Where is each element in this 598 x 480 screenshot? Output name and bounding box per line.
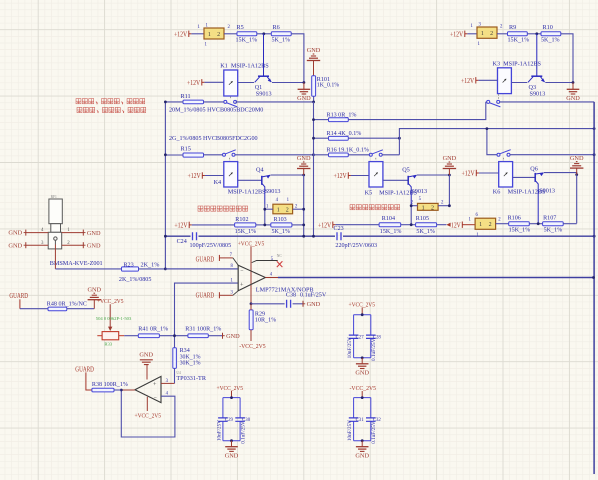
- svg-text:GND: GND: [307, 47, 321, 54]
- transistor Q4: [261, 176, 263, 185]
- ground port GND (C38): [302, 301, 304, 307]
- wires cap bank rails C: [354, 397, 371, 399]
- svg-text:R107: R107: [543, 215, 556, 221]
- wire +12V to K1 coil: [204, 81, 223, 83]
- power port +VCC_2V5 (U2 bottom supply): [146, 397, 148, 411]
- wire K5 coil to Q5 base: [383, 179, 408, 181]
- resistor R101: [312, 76, 316, 96]
- svg-text:15K_1%: 15K_1%: [380, 229, 402, 235]
- svg-text:1K_0.1%: 1K_0.1%: [317, 83, 340, 89]
- svg-text:+VCC_2V5: +VCC_2V5: [97, 298, 124, 305]
- svg-text:Q4: Q4: [256, 166, 264, 173]
- wire header to R106: [496, 223, 509, 225]
- svg-text:5K_1%: 5K_1%: [544, 228, 563, 234]
- wire supply node to R29: [250, 304, 252, 310]
- svg-text:+12V: +12V: [450, 30, 464, 38]
- svg-text:2: 2: [490, 31, 493, 37]
- svg-text:K3 MSIP-1A12BS: K3 MSIP-1A12BS: [493, 61, 542, 68]
- wire K3 coil to Q3 collector: [511, 82, 527, 84]
- ground (bank C27/C28): [361, 358, 363, 364]
- op-amp U1 triangle: [238, 265, 265, 291]
- U1 output pin 4: [265, 277, 278, 279]
- wire R101 to R11 row: [313, 96, 315, 102]
- wire header pin2 to GND riser: [293, 208, 304, 210]
- wire R10 right, down to emitter node: [561, 34, 573, 83]
- wire K6 contact to right edge: [510, 154, 594, 156]
- wire feedback bus: [165, 235, 190, 237]
- ground (K5 block): [448, 169, 450, 176]
- svg-text:10R_1%: 10R_1%: [255, 318, 276, 324]
- svg-text:S9013: S9013: [411, 188, 427, 195]
- svg-text:K5: K5: [365, 190, 373, 197]
- junction R5/R6/Q1 base: [262, 32, 265, 35]
- ground port GND (R31): [222, 333, 224, 339]
- svg-text:GND: GND: [88, 286, 102, 293]
- wire R106 to R107: [529, 223, 542, 225]
- wire R104 to R105: [401, 224, 416, 226]
- svg-text:GUARD: GUARD: [196, 291, 215, 299]
- svg-text:GND: GND: [355, 452, 369, 459]
- svg-text:GND: GND: [443, 155, 457, 162]
- svg-text:+VCC_2V5: +VCC_2V5: [135, 412, 162, 419]
- junction output bus / right edge: [592, 276, 595, 279]
- ground (bank C31/C32): [361, 441, 363, 447]
- svg-text:+12V: +12V: [461, 77, 475, 85]
- svg-text:C24: C24: [177, 239, 187, 245]
- svg-text:MSIP-1A12BS: MSIP-1A12BS: [228, 188, 266, 195]
- svg-text:R104: R104: [382, 216, 395, 222]
- wire BNC center pin down to input row: [54, 245, 56, 269]
- wire input to U1 pin 8: [165, 268, 238, 270]
- relay contact K3: [487, 100, 490, 103]
- wire R16 to K5 contact: [348, 154, 369, 156]
- svg-text:Q5: Q5: [402, 166, 410, 173]
- wire U1 pin 1 to R34 branch: [175, 283, 239, 348]
- svg-text:R11: R11: [181, 93, 191, 100]
- svg-text:12V: 12V: [451, 221, 461, 229]
- svg-text:10nF/25V: 10nF/25V: [347, 420, 353, 441]
- svg-text:GND: GND: [8, 242, 22, 249]
- svg-text:GND: GND: [225, 452, 239, 459]
- wire Q4 emitter to GND node: [271, 174, 304, 176]
- capacitor C31: [353, 398, 355, 418]
- svg-text:GND: GND: [566, 95, 580, 102]
- svg-text:R15: R15: [181, 145, 191, 152]
- wire Q5 collector riser to header pin1: [410, 204, 412, 225]
- svg-text:5K_1%: 5K_1%: [272, 38, 291, 44]
- svg-text:+12V: +12V: [462, 170, 476, 178]
- svg-text:R6: R6: [273, 24, 280, 31]
- wire Q1 base from divider: [263, 34, 265, 76]
- wire K4 GND riser down to bus: [303, 175, 305, 236]
- svg-text:1: 1: [422, 205, 425, 211]
- svg-text:2: 2: [217, 32, 220, 38]
- wire +VCC to R33 (red, with arrow): [109, 304, 111, 327]
- wire Q6 emitter to GND node: [544, 173, 577, 175]
- svg-text:R33: R33: [104, 341, 112, 346]
- svg-text:5K_1%: 5K_1%: [416, 229, 435, 235]
- svg-text:+: +: [240, 282, 244, 289]
- svg-text:5K_1%: 5K_1%: [541, 38, 560, 44]
- svg-text:R5: R5: [237, 24, 244, 31]
- wire U2 output (apex) to R38 node: [121, 389, 135, 391]
- wire output bus: [278, 277, 594, 279]
- wire Q4 collector riser to header pin1: [264, 204, 266, 225]
- svg-text:K4: K4: [214, 179, 222, 186]
- wire riser to R16: [314, 154, 329, 156]
- wire R13 to K3 contact riser: [348, 102, 486, 120]
- wire supply node to C38: [251, 303, 285, 305]
- wire Q5 emitter to GND node: [417, 174, 450, 176]
- ground (K4 block): [303, 169, 305, 176]
- wire R105 to +12V arrow port: [437, 224, 447, 226]
- svg-text:+VCC_2V5: +VCC_2V5: [238, 240, 265, 247]
- svg-text:0.1uF/25V: 0.1uF/25V: [371, 338, 377, 361]
- svg-text:15K_1%: 15K_1%: [235, 229, 257, 235]
- ground (R48): [93, 300, 95, 309]
- svg-text:−: −: [240, 268, 243, 274]
- svg-text:−: −: [154, 395, 157, 401]
- wire bus to R15: [165, 154, 183, 156]
- relay contact K6: [497, 153, 500, 156]
- svg-text:0.1uF/25V: 0.1uF/25V: [240, 421, 246, 444]
- svg-text:+: +: [153, 381, 157, 388]
- wire C38 to GND port: [293, 303, 303, 305]
- wire Q1 emitter to ground node: [272, 82, 304, 84]
- junction right edge / bus: [593, 235, 596, 238]
- svg-text:1: 1: [277, 207, 280, 213]
- wire guard to U1 pin 7: [219, 257, 233, 259]
- svg-text:2G_1%/0805 HVCB0805FDC2G00: 2G_1%/0805 HVCB0805FDC2G00: [169, 136, 258, 142]
- transistor Q6: [534, 173, 536, 182]
- wire R41 to R31: [159, 335, 188, 337]
- capacitor C27: [353, 315, 355, 335]
- wire R29 to -VCC_2V5: [250, 330, 252, 341]
- svg-text:R9: R9: [509, 24, 516, 31]
- svg-text:1: 1: [481, 31, 484, 37]
- wire +12V to R102: [192, 224, 235, 226]
- svg-text:-VCC_2V5: -VCC_2V5: [350, 385, 377, 392]
- svg-text:R41 0R_1%: R41 0R_1%: [138, 327, 168, 333]
- wire long line branch to K6 contact: [487, 129, 497, 155]
- svg-text:30K_1%: 30K_1%: [180, 354, 201, 360]
- wire U2 pin 3 (top right): [161, 382, 175, 384]
- wire R31 to GND port: [208, 335, 222, 337]
- svg-text:C27: C27: [356, 335, 365, 340]
- wire header to R9: [497, 33, 508, 35]
- resistor R9: [508, 32, 528, 36]
- wire R102 to R103: [256, 224, 271, 226]
- wire header to R5: [224, 33, 237, 35]
- transistor Q5: [407, 176, 409, 185]
- svg-text:U4: U4: [176, 371, 181, 375]
- svg-text:GND: GND: [297, 155, 311, 162]
- svg-text:GND: GND: [8, 230, 22, 237]
- svg-text:+12V: +12V: [187, 79, 201, 87]
- svg-text:2K_1%: 2K_1%: [141, 261, 160, 268]
- wire Q3 emitter to ground node: [545, 82, 573, 84]
- wire +12V to K5 coil: [351, 175, 369, 177]
- junction R101 / R11 row / right riser: [312, 101, 315, 104]
- svg-text:+12V: +12V: [318, 221, 332, 229]
- junction R9/R10/Q3 base: [535, 32, 538, 35]
- svg-text:K6: K6: [493, 188, 501, 195]
- wire header pin2 to K5 GND riser: [438, 205, 449, 207]
- annotation: Chinese 'power-on default max range' (K4): [198, 206, 203, 211]
- junction right edge / long line: [593, 127, 596, 130]
- ground port GND (BNC right top): [82, 230, 84, 236]
- ground (bank C29/C30): [231, 441, 233, 447]
- svg-text:TP0331-TR: TP0331-TR: [176, 375, 206, 382]
- junction right edge / K6 contact row: [593, 153, 596, 156]
- junction right riser / bus: [312, 235, 315, 238]
- junction left bus / feedback bus: [164, 235, 167, 238]
- wires cap bank rails B: [223, 397, 240, 399]
- wire -VCC to bank C31/C32: [361, 391, 363, 398]
- wire R38 to output node: [114, 389, 121, 391]
- svg-text:GUARD: GUARD: [75, 365, 94, 373]
- svg-text:2K_1%/0805: 2K_1%/0805: [119, 277, 151, 283]
- wire riser to R14: [314, 137, 329, 139]
- capacitor C24 (series on bus): [193, 232, 197, 240]
- wire +12V to K4 coil: [205, 175, 224, 177]
- svg-text:10nF/25V: 10nF/25V: [347, 337, 353, 358]
- junction R104/R105/Q5 collector: [410, 223, 413, 226]
- wire K6 coil to Q6 base: [513, 176, 536, 178]
- wire R103 to K4 GND riser: [292, 224, 304, 226]
- wire right riser vertical (R101 to bus): [313, 102, 315, 236]
- svg-text:10nF/25V: 10nF/25V: [216, 420, 222, 441]
- svg-text:1: 1: [479, 222, 482, 228]
- svg-text:5K_1%: 5K_1%: [272, 229, 291, 235]
- junction R41/R31/U1 pin1 branch: [173, 334, 176, 337]
- svg-text:0.1uF/25V: 0.1uF/25V: [300, 292, 327, 298]
- svg-text:R10: R10: [543, 24, 553, 31]
- svg-text:S9013: S9013: [530, 90, 546, 97]
- relay contact K5: [369, 153, 372, 156]
- ground (Q1 emitter): [303, 83, 305, 90]
- wire K4 coil to Q4 base: [238, 179, 262, 181]
- wire guard to R48: [20, 308, 48, 310]
- svg-text:15K_1%: 15K_1%: [236, 38, 258, 44]
- svg-text:220pF/25V/0603: 220pF/25V/0603: [335, 243, 377, 249]
- junction Q3 emitter / R10 / GND: [572, 81, 575, 84]
- junction Q6 emitter / GND riser: [575, 173, 578, 176]
- svg-text:NC: NC: [277, 254, 283, 258]
- svg-text:1: 1: [208, 32, 211, 38]
- svg-text:0.1uF/25V: 0.1uF/25V: [371, 421, 377, 444]
- connector/jumper 1-2 (K6 range header): [475, 218, 496, 229]
- svg-text:30K_1%: 30K_1%: [180, 361, 201, 367]
- svg-text:S9013: S9013: [539, 187, 555, 194]
- svg-text:Q6: Q6: [530, 165, 538, 172]
- wire right edge vertical: [593, 102, 595, 474]
- svg-text:GND: GND: [87, 243, 101, 250]
- svg-text:S9013: S9013: [256, 90, 272, 97]
- transistor Q3: [531, 75, 542, 77]
- svg-text:R31 100R_1%: R31 100R_1%: [185, 327, 221, 333]
- wire R9 to R10: [527, 33, 541, 35]
- junction K4 riser / bus: [302, 235, 305, 238]
- connector/jumper 1-2 (K1 range header): [204, 28, 224, 39]
- junction riser / R15 row: [312, 153, 315, 156]
- resistor R33 (red): [102, 332, 119, 340]
- ground port GND (BNC right bottom): [82, 242, 84, 248]
- junction Q4 emitter / K4 GND riser: [302, 174, 305, 177]
- capacitor C23 (series on bus): [337, 232, 341, 240]
- svg-text:20M_1%/0805 HVCB0805BDC20M0: 20M_1%/0805 HVCB0805BDC20M0: [169, 108, 263, 114]
- wire R6 right, down to emitter node: [291, 34, 304, 83]
- wire +12V to header K3: [467, 33, 477, 35]
- svg-text:R103: R103: [274, 217, 287, 223]
- svg-text:GUARD: GUARD: [196, 255, 215, 263]
- junction Q1 emitter / R6 / GND: [303, 81, 306, 84]
- svg-text:15K_1%: 15K_1%: [509, 228, 531, 234]
- junction R106/R107/Q6 collector: [537, 222, 540, 225]
- svg-text:GND: GND: [297, 95, 311, 102]
- svg-text:GND: GND: [139, 352, 153, 359]
- junction left bus / R11 row: [164, 101, 167, 104]
- wire R11 to K1 contact: [204, 101, 225, 103]
- wire R15 to K4 contact: [204, 154, 223, 156]
- wire mid riser and long feedback line: [399, 129, 594, 155]
- resistor R34: [173, 348, 177, 369]
- annotation: red Chinese note line 2: [77, 107, 82, 112]
- svg-text:2: 2: [431, 205, 434, 211]
- svg-text:R34: R34: [180, 348, 190, 354]
- wire bus to R11: [165, 101, 183, 103]
- svg-text:S9013: S9013: [265, 188, 281, 195]
- svg-text:100pF/25V/0805: 100pF/25V/0805: [190, 243, 232, 249]
- wire left bus vertical: [164, 102, 166, 269]
- svg-text:GUARD: GUARD: [9, 292, 28, 300]
- resistor R5: [237, 32, 257, 36]
- wire bus C24 to C23: [199, 235, 336, 237]
- svg-text:C38: C38: [286, 292, 296, 298]
- junction R102/R103/Q4 collector: [263, 224, 266, 227]
- relay contact K4: [223, 153, 226, 156]
- svg-text:+12V: +12V: [174, 30, 188, 38]
- svg-text:2: 2: [489, 222, 492, 228]
- junction mid riser / R14 row: [398, 137, 401, 140]
- wire +12V to header: [191, 33, 204, 35]
- svg-text:GND: GND: [570, 155, 584, 162]
- wire K4 contact to right riser: [235, 154, 314, 156]
- svg-text:R38 100R_1%: R38 100R_1%: [92, 382, 128, 388]
- wire Q3 base from divider: [536, 34, 538, 76]
- svg-text:+VCC_2V5: +VCC_2V5: [217, 385, 244, 392]
- wire input row to R23: [55, 268, 121, 270]
- wire K3 contact row: [486, 101, 487, 103]
- relay contact K1: [224, 100, 227, 103]
- annotation: red Chinese note line 1: [76, 99, 81, 104]
- resistor R29: [249, 310, 253, 330]
- wire BNC shield pins (red): [26, 232, 48, 234]
- annotation: Chinese 'power-on default max range' (K5): [350, 205, 355, 210]
- wire K1 coil to Q1 collector: [238, 82, 254, 84]
- wire +12V to K6 coil: [479, 172, 499, 174]
- capacitor C32: [370, 398, 372, 418]
- svg-text:-VCC_2V5: -VCC_2V5: [239, 343, 266, 350]
- wire K6 GND riser down to R107: [576, 175, 578, 224]
- junction left bus / input node: [164, 268, 167, 271]
- resistor R10: [541, 32, 561, 36]
- wire bus C23 to right edge: [343, 235, 594, 237]
- svg-text:+12V: +12V: [188, 172, 202, 180]
- wire K3 contact to right edge: [500, 101, 594, 103]
- svg-text:K1 MSIP-1A12BS: K1 MSIP-1A12BS: [220, 63, 269, 70]
- junction U1 supply node: [250, 302, 253, 305]
- wire K5 contact to mid riser: [382, 154, 399, 156]
- junction left bus / R15 row: [164, 153, 167, 156]
- wire U2 pin 4 to feedback loop: [121, 390, 175, 437]
- resistor R6: [271, 32, 291, 36]
- svg-text:R29: R29: [255, 311, 265, 317]
- capacitor C28: [370, 315, 372, 335]
- wire guard to U1 pin 3: [219, 294, 233, 296]
- wire R23 to op-amp pin: [139, 268, 239, 270]
- svg-text:GND: GND: [226, 333, 240, 340]
- wire +12V to R104: [335, 224, 379, 226]
- svg-text:GND: GND: [87, 230, 101, 237]
- op-amp U2 triangle (mirrored): [135, 376, 161, 402]
- svg-text:R102: R102: [235, 217, 248, 223]
- svg-text:+12V: +12V: [334, 172, 348, 180]
- connector/jumper 1-2 (K5 range select): [418, 203, 439, 210]
- wires cap bank rails A: [354, 314, 371, 316]
- capacitor C30: [239, 398, 241, 418]
- wire riser to R13: [314, 119, 329, 121]
- transistor Q1: [258, 75, 269, 77]
- wire +12V to K3 coil: [478, 79, 497, 81]
- connector/jumper 1-2 (K3 range header): [477, 27, 497, 38]
- ground port GND (BNC left top): [25, 230, 27, 236]
- svg-text:GND: GND: [355, 369, 369, 376]
- wire K1 contact to R101 node: [236, 101, 314, 103]
- ground (K6 block): [576, 168, 578, 175]
- svg-text:+VCC_2V5: +VCC_2V5: [349, 301, 376, 308]
- ground port GND (BNC left bottom): [25, 242, 27, 248]
- svg-text:R106: R106: [508, 215, 521, 221]
- power port +12V (left-facing, K6 row): [446, 223, 450, 227]
- capacitor C29: [222, 398, 224, 418]
- wire R48 to GND: [67, 308, 95, 310]
- svg-text:+12V: +12V: [174, 222, 188, 230]
- wire port to K6 header: [462, 224, 475, 226]
- wire R14 to mid riser: [348, 137, 399, 139]
- svg-text:RF1: RF1: [51, 195, 57, 199]
- svg-text:BMSMA-KVE-Z001: BMSMA-KVE-Z001: [50, 260, 103, 267]
- svg-text:GND: GND: [307, 301, 321, 308]
- junction Q5 emitter / K5 GND riser: [448, 174, 451, 177]
- wire K5 GND riser down to header pin2: [448, 175, 450, 206]
- junction U2 output / R38 / feedback: [120, 389, 123, 392]
- wire R107 to GND riser: [563, 223, 577, 225]
- svg-text:2: 2: [286, 207, 289, 213]
- ground (above R101): [313, 61, 315, 76]
- U1 pin 5 NC with cross: [252, 261, 278, 263]
- connector/jumper 1-2 (K4 range select): [273, 204, 293, 214]
- svg-text:C31: C31: [356, 418, 365, 423]
- wire R34 to U2 pin 3: [174, 368, 176, 383]
- svg-text:504 0 0962P-1-503: 504 0 0962P-1-503: [96, 316, 132, 321]
- wire R33 to R41: [124, 335, 138, 337]
- connector J1 BMSMA-KVE-Z001 (BNC): [48, 199, 62, 249]
- svg-text:R105: R105: [416, 216, 429, 222]
- svg-text:C23: C23: [334, 226, 344, 232]
- svg-text:15K_1%: 15K_1%: [508, 38, 530, 44]
- ground (Q3 emitter): [572, 83, 574, 90]
